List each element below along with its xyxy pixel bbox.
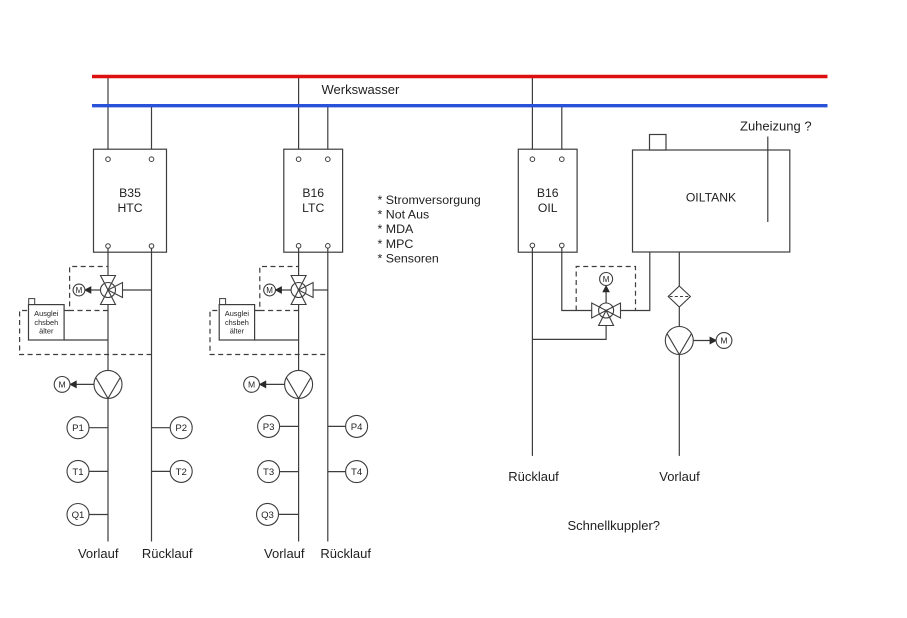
svg-text:chsbeh: chsbeh <box>34 318 58 327</box>
actuator arrow V2 <box>276 287 292 293</box>
svg-text:OILTANK: OILTANK <box>686 191 736 205</box>
svg-text:Ausglei: Ausglei <box>225 309 250 318</box>
oil tank <box>633 150 790 252</box>
wire: Q3 tap <box>279 513 299 515</box>
dashed enclosure around valve V1 <box>70 267 108 311</box>
wire: B35 return pipe down <box>151 248 153 541</box>
wire: T1 tap <box>89 470 108 472</box>
wire: valve V2 to pump 2 <box>298 305 300 371</box>
wire: valve V3 bottom to Ruecklauf pipe <box>532 326 606 340</box>
svg-text:M: M <box>248 380 255 390</box>
pin OIL top-left <box>530 157 535 162</box>
svg-text:M: M <box>76 286 83 295</box>
wire: red bus to B35 inlet <box>107 77 109 157</box>
wire: blue bus to B16 LTC outlet <box>327 106 329 157</box>
svg-text:T3: T3 <box>263 467 274 478</box>
svg-text:T2: T2 <box>176 467 187 478</box>
wire: P1 tap <box>89 427 108 429</box>
svg-text:B16: B16 <box>537 186 559 200</box>
pin B35 top-left <box>106 157 111 162</box>
wire: valve V1 to pump 1 <box>107 305 109 371</box>
svg-text:B35: B35 <box>119 186 141 200</box>
wire: B35 to valve V1 <box>107 248 109 275</box>
wire: expansion tank 2 to pipe <box>255 339 299 341</box>
sensor T1 <box>67 460 89 482</box>
wire: valve V1 to return pipe <box>123 289 152 291</box>
svg-text:* Sensoren: * Sensoren <box>378 251 439 265</box>
svg-text:Rücklauf: Rücklauf <box>508 469 559 484</box>
wire: filter to pump 3 <box>678 307 680 327</box>
actuator arrow pump 3 <box>693 337 716 343</box>
heater probe line <box>767 137 769 223</box>
wire: valve V2 to return pipe <box>313 289 328 291</box>
sensor Q3 <box>257 503 279 525</box>
filter F1 <box>668 286 690 307</box>
pin LTC top-right <box>326 157 331 162</box>
motor M of valve V3 <box>600 273 613 286</box>
svg-text:P3: P3 <box>263 422 275 433</box>
sensor P2 <box>170 417 192 439</box>
pin B35 top-right <box>149 157 154 162</box>
svg-text:P4: P4 <box>351 422 363 433</box>
dashed enclosure around valve V2 <box>260 267 299 311</box>
wire: blue bus to B16 OIL outlet <box>561 106 563 157</box>
svg-text:HTC: HTC <box>117 201 142 215</box>
svg-text:älter: älter <box>230 327 245 336</box>
motor M of pump 2 <box>244 377 260 393</box>
wire: LTC return pipe down <box>327 248 329 541</box>
pin OIL top-right <box>560 157 565 162</box>
pin OIL bottom-right <box>560 243 565 248</box>
heat exchanger B35 HTC <box>94 149 167 252</box>
wire: T4 tap <box>328 471 346 473</box>
svg-text:Vorlauf: Vorlauf <box>264 546 305 561</box>
svg-text:B16: B16 <box>302 186 324 200</box>
motor M of valve V1 <box>73 284 85 296</box>
sensor Q1 <box>67 504 89 526</box>
wire: pump 2 to Vorlauf <box>298 398 300 541</box>
svg-text:T4: T4 <box>351 467 363 478</box>
svg-text:M: M <box>720 336 727 346</box>
wire: oil tank to filter <box>678 252 680 286</box>
svg-text:P1: P1 <box>72 423 84 434</box>
svg-text:Vorlauf: Vorlauf <box>78 546 119 561</box>
bus: Werkswasser return (blue) <box>92 104 828 107</box>
svg-text:T1: T1 <box>72 467 83 478</box>
svg-text:M: M <box>603 275 610 284</box>
svg-text:OIL: OIL <box>538 201 558 215</box>
sensor P4 <box>346 415 368 437</box>
svg-text:LTC: LTC <box>302 201 324 215</box>
actuator arrow pump 2 <box>260 381 285 387</box>
wire: T2 tap <box>152 470 171 472</box>
wire: pump 3 to Vorlauf <box>678 355 680 456</box>
pin LTC bottom-right <box>326 244 331 249</box>
wire: T3 tap <box>280 471 299 473</box>
wire: expansion tank 1 to pipe <box>64 339 108 341</box>
wire: B16 OIL to valve V3 elbow <box>562 248 592 311</box>
dashed enclosure expansion tank 2 <box>210 311 328 355</box>
svg-text:Rücklauf: Rücklauf <box>142 546 193 561</box>
wire: oil tank to valve V3 elbow <box>621 252 650 311</box>
svg-text:* Stromversorgung: * Stromversorgung <box>378 193 481 207</box>
3-way mixing valve V2 <box>291 276 313 305</box>
svg-text:Rücklauf: Rücklauf <box>320 546 371 561</box>
wire: red bus to B16 LTC inlet <box>298 77 300 157</box>
motor M of pump 1 <box>54 377 70 393</box>
svg-text:chsbeh: chsbeh <box>225 318 249 327</box>
svg-text:Vorlauf: Vorlauf <box>659 469 700 484</box>
heat exchanger B16 LTC <box>284 149 343 252</box>
wire: blue bus to B35 outlet <box>151 106 153 157</box>
sensor T4 <box>346 461 368 483</box>
dashed enclosure around valve V3 <box>576 267 635 311</box>
pin B35 bottom-right <box>149 244 154 249</box>
pin B35 bottom-left <box>106 244 111 249</box>
svg-text:Q3: Q3 <box>261 510 274 521</box>
sensor P1 <box>67 417 89 439</box>
svg-text:M: M <box>59 380 66 390</box>
oil tank chimney <box>650 135 667 151</box>
actuator arrow V3 <box>603 286 609 303</box>
3-way mixing valve V3 <box>592 303 621 326</box>
svg-text:Werkswasser: Werkswasser <box>322 82 400 97</box>
wire: pump 1 to Vorlauf <box>107 398 109 541</box>
motor M of pump 3 <box>716 333 732 349</box>
svg-text:Zuheizung ?: Zuheizung ? <box>740 119 812 134</box>
expansion tank 1 (Ausgleichsbehaelter) <box>29 299 65 340</box>
wire: Q1 tap <box>89 514 108 516</box>
heat exchanger B16 OIL <box>518 149 577 252</box>
bus: Werkswasser supply (red) <box>92 75 828 78</box>
svg-text:* MDA: * MDA <box>378 222 415 236</box>
svg-text:M: M <box>266 286 273 295</box>
actuator arrow V1 <box>85 287 101 293</box>
sensor P3 <box>258 415 280 437</box>
dashed enclosure expansion tank 1 <box>20 311 152 355</box>
wire: P3 tap <box>280 425 299 427</box>
motor M of valve V2 <box>264 284 276 296</box>
svg-text:älter: älter <box>39 327 54 336</box>
svg-text:* MPC: * MPC <box>378 237 414 251</box>
3-way mixing valve V1 <box>101 276 123 305</box>
pump 2 <box>285 370 313 398</box>
pin LTC top-left <box>296 157 301 162</box>
svg-text:Schnellkuppler?: Schnellkuppler? <box>568 518 661 533</box>
pump 3 <box>665 327 693 355</box>
actuator arrow pump 1 <box>70 381 94 387</box>
wire: red bus to B16 OIL inlet <box>531 77 533 157</box>
expansion tank 2 (Ausgleichsbehaelter) <box>219 299 254 340</box>
wire: P4 tap <box>328 425 346 427</box>
pin LTC bottom-left <box>296 244 301 249</box>
wire: B16 OIL Ruecklauf pipe down <box>531 248 533 456</box>
svg-text:* Not Aus: * Not Aus <box>378 208 430 222</box>
wire: P2 tap <box>152 427 171 429</box>
sensor T3 <box>258 461 280 483</box>
pin OIL bottom-left <box>530 243 535 248</box>
svg-text:P2: P2 <box>175 423 187 434</box>
note list Stromversorgung <box>378 193 481 265</box>
svg-text:Q1: Q1 <box>72 510 85 521</box>
sensor T2 <box>170 460 192 482</box>
svg-text:Ausglei: Ausglei <box>34 309 59 318</box>
wire: LTC to valve V2 <box>298 248 300 275</box>
pump 1 <box>94 370 122 398</box>
